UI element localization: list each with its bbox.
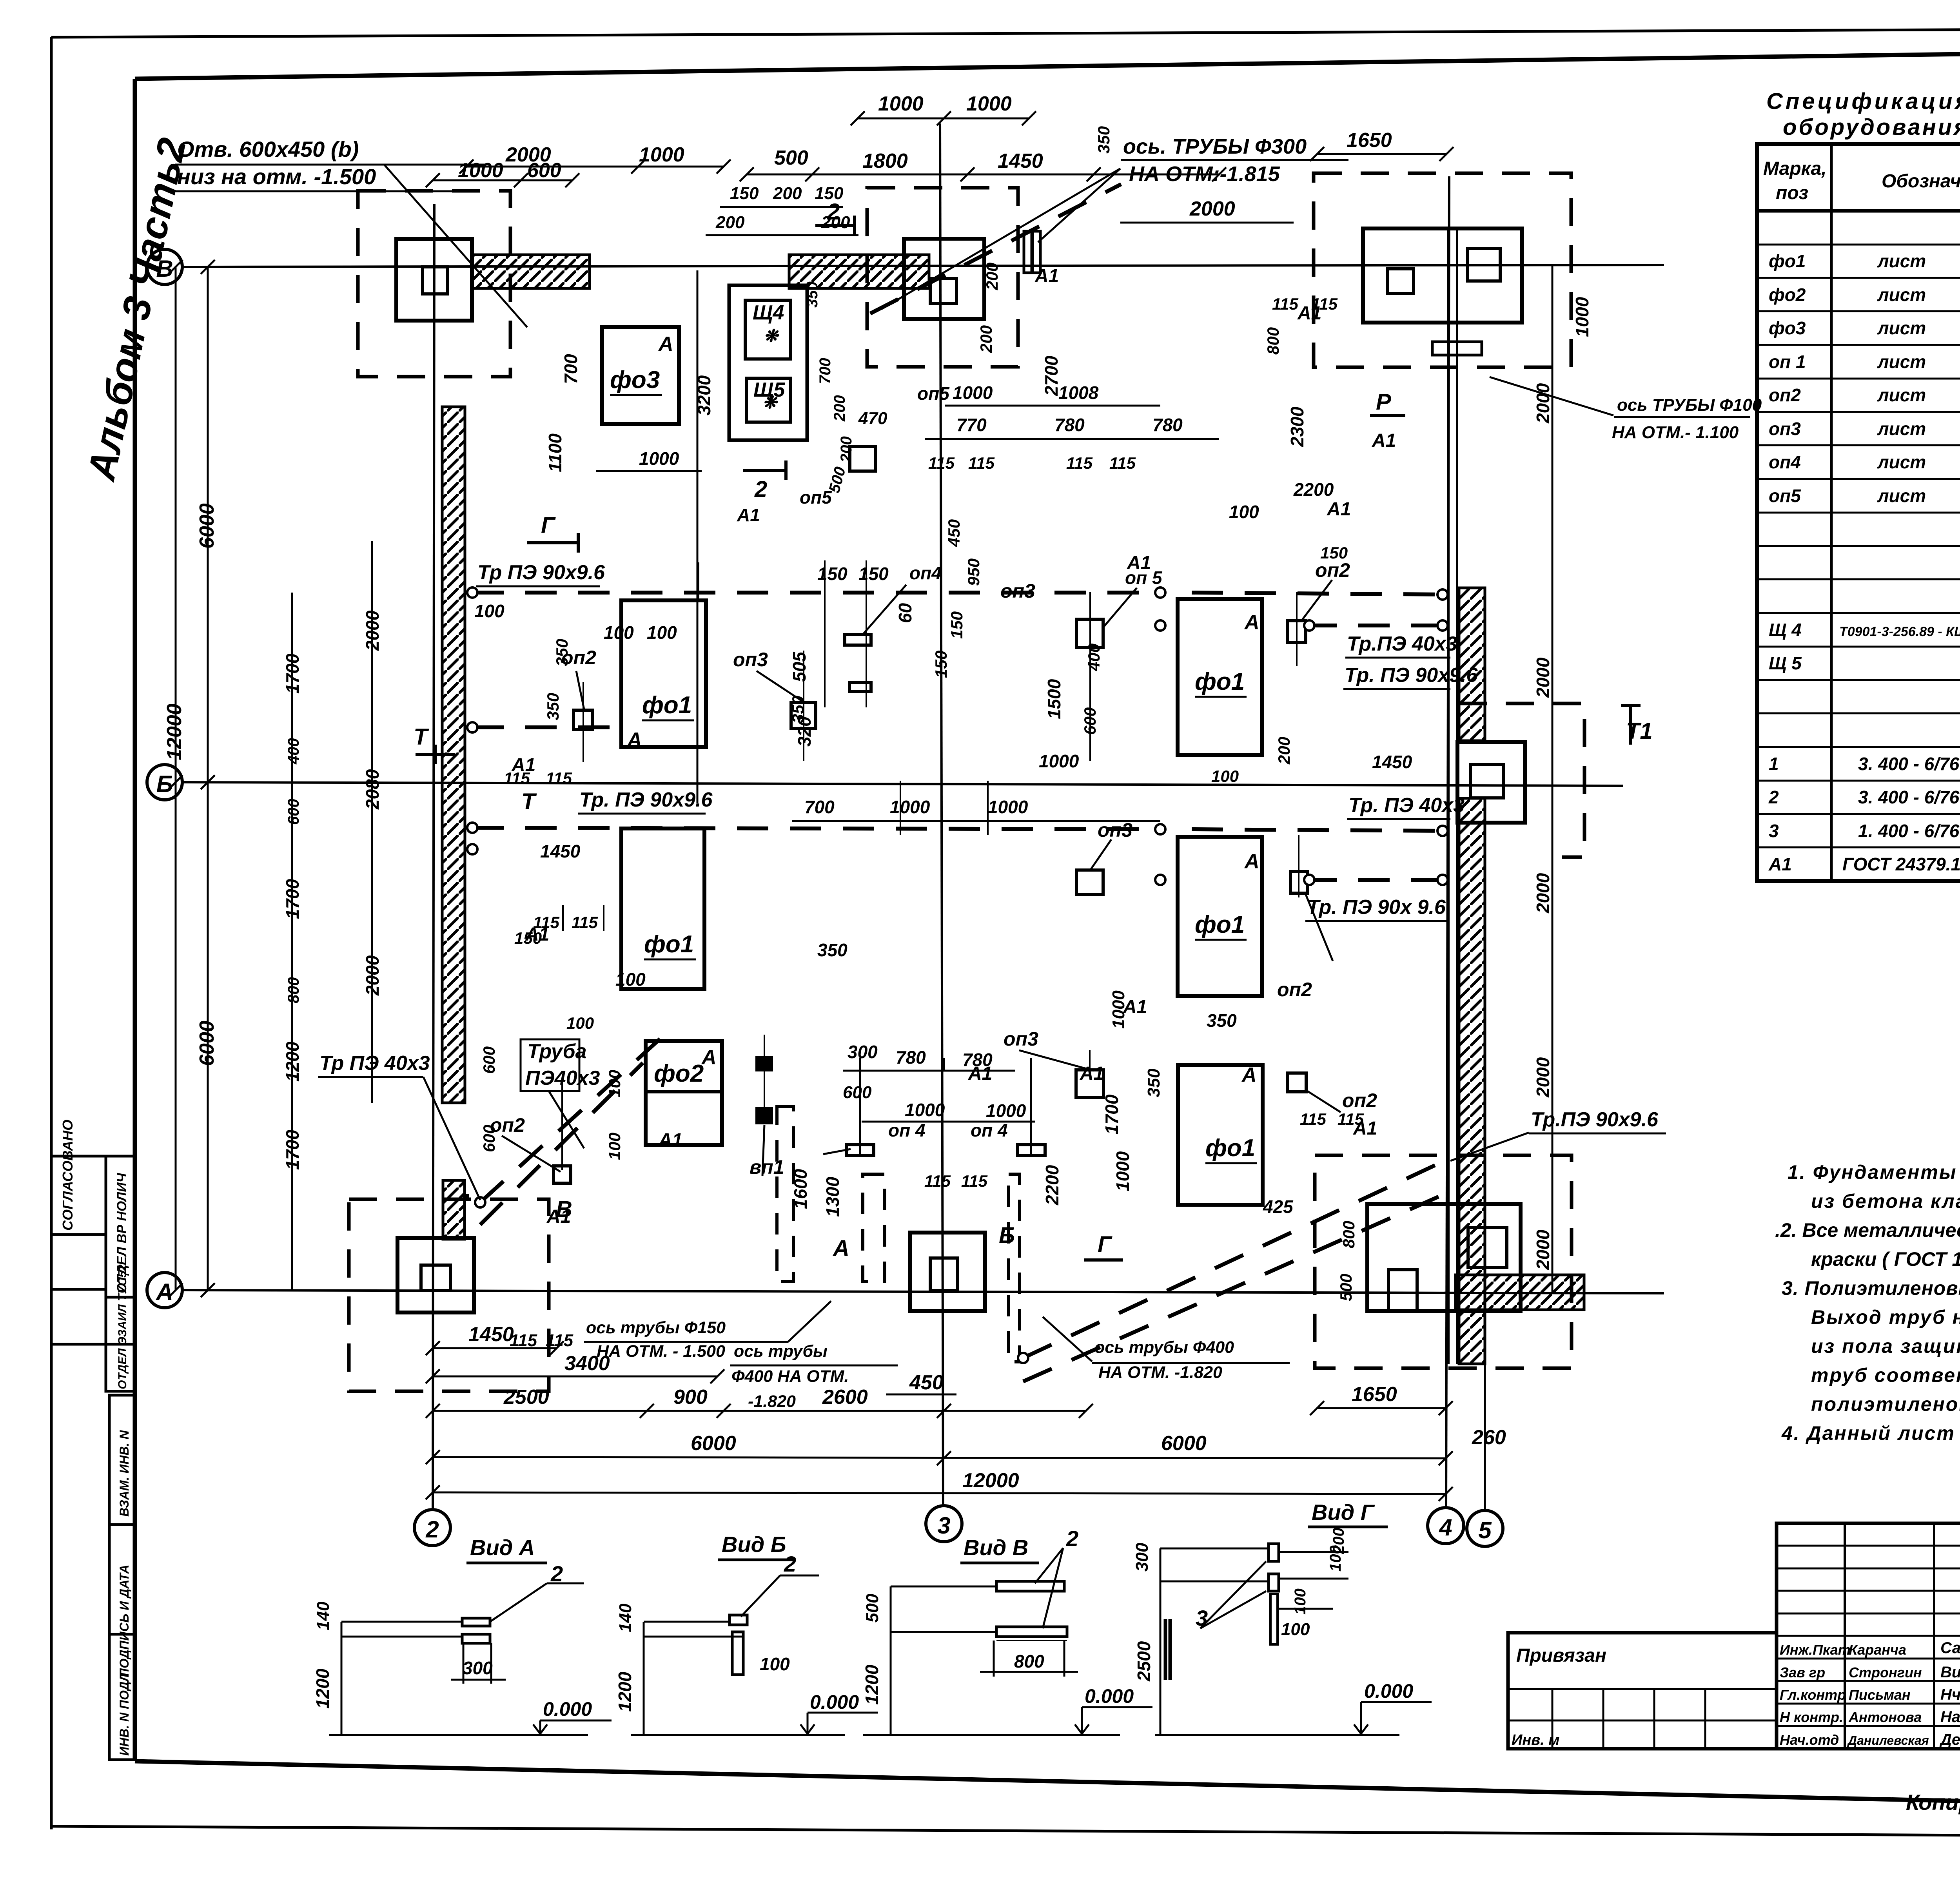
svg-text:200: 200 [1330, 1528, 1347, 1554]
svg-text:1. Фундаменты под оборудо: 1. Фундаменты под оборудование и приямки… [1788, 1161, 1960, 1183]
svg-text:Отв. 600х450 (b): Отв. 600х450 (b) [177, 137, 359, 161]
svg-text:Вид В: Вид В [964, 1535, 1028, 1560]
svg-text:12000: 12000 [962, 1469, 1019, 1492]
opora small squares [465, 446, 1307, 1198]
svg-text:2000: 2000 [1533, 1057, 1553, 1098]
svg-text:6000: 6000 [691, 1432, 736, 1455]
wall top along axis В (hatched) [472, 255, 590, 288]
svg-text:Тр. ПЭ 90х9.6: Тр. ПЭ 90х9.6 [579, 789, 713, 811]
svg-text:Письман: Письман [1849, 1687, 1911, 1703]
svg-text:оп 1: оп 1 [1769, 352, 1806, 372]
опора labels scattered [490, 559, 1377, 1178]
svg-text:115: 115 [546, 769, 572, 787]
foundation block at axis В right [1363, 228, 1522, 323]
pit dashed strips near axis А center [777, 1106, 793, 1282]
pipe axis note Ф100 [1612, 395, 1762, 442]
svg-text:150: 150 [858, 564, 889, 584]
svg-text:200: 200 [773, 184, 802, 203]
svg-text:400: 400 [285, 738, 302, 765]
bottom dim row 1450 [433, 1347, 557, 1349]
svg-text:фо1: фо1 [1195, 911, 1245, 938]
svg-text:1000: 1000 [890, 797, 930, 817]
dim 2000 right of axis3 top [1120, 222, 1294, 224]
vertical dim lines left margin [175, 267, 177, 1290]
svg-text:140: 140 [616, 1603, 635, 1632]
axis 2 vertical [433, 204, 434, 1509]
svg-text:100: 100 [760, 1654, 790, 1674]
svg-text:Спецификация к схеме распол: Спецификация к схеме расположения фундам… [1766, 89, 1960, 114]
ticks bottom rows [169, 111, 1454, 1501]
bottom dim row 3400 [433, 1376, 717, 1378]
svg-text:100: 100 [604, 622, 634, 643]
svg-text:950: 950 [964, 558, 983, 586]
svg-text:150: 150 [932, 651, 950, 678]
svg-text:Вир-: Вир- [1940, 1664, 1960, 1681]
svg-text:Сарси: Сарси [1940, 1639, 1960, 1657]
svg-text:115: 115 [928, 454, 955, 472]
svg-text:1700: 1700 [1102, 1094, 1122, 1135]
svg-text:1200: 1200 [862, 1664, 882, 1705]
svg-text:1000: 1000 [639, 448, 679, 469]
svg-text:350: 350 [544, 693, 562, 720]
spec table title [1766, 89, 1960, 140]
dim line row top 500-1800-1450 [747, 174, 1219, 176]
svg-text:1000: 1000 [966, 92, 1012, 115]
А1 reference labels [510, 266, 1396, 1350]
svg-text:100: 100 [1211, 767, 1239, 785]
svg-text:ГОСТ 24379.1 - 80: ГОСТ 24379.1 - 80 [1842, 854, 1960, 874]
svg-text:НА ОТМ.- 1.100: НА ОТМ.- 1.100 [1612, 423, 1739, 442]
svg-text:1800: 1800 [862, 150, 908, 172]
svg-text:оп5: оп5 [800, 487, 832, 508]
svg-text:Б: Б [156, 771, 173, 797]
pipe dashed diagonal bottom-left [480, 1033, 666, 1202]
dim row 770-780-780 upper [925, 438, 1219, 440]
svg-text:1650: 1650 [1347, 129, 1392, 152]
svg-text:Данилевская: Данилевская [1847, 1733, 1929, 1748]
svg-text:0.000: 0.000 [1364, 1680, 1413, 1702]
foundation фо3 [602, 327, 679, 424]
SEC:NOTES [1775, 1161, 1960, 1444]
svg-text:А: А [1241, 1064, 1257, 1086]
svg-text:2080: 2080 [362, 769, 383, 810]
svg-text:1000: 1000 [988, 797, 1028, 817]
foundation фо1 n4 [1178, 837, 1262, 996]
pipe dashed right stubs [1305, 624, 1446, 627]
equipment dashed outline T1 right of wall [1459, 703, 1584, 857]
svg-text:1100: 1100 [545, 433, 565, 472]
svg-text:труб соответствующего диаме: труб соответствующего диаметра. Специфик… [1811, 1364, 1960, 1386]
svg-text:700: 700 [804, 797, 835, 817]
panel stand Щ4-Щ5 [729, 285, 807, 440]
svg-text:Инв. м: Инв. м [1512, 1732, 1559, 1748]
svg-text:115: 115 [546, 1331, 573, 1350]
svg-text:Зав гр: Зав гр [1780, 1664, 1825, 1680]
svg-text:350: 350 [1094, 126, 1113, 154]
svg-text:600: 600 [843, 1083, 872, 1102]
scattered inner dims [474, 126, 1412, 1301]
svg-text:60: 60 [895, 603, 915, 623]
wall right (hatched lower) [1459, 798, 1485, 1364]
axis circle А [147, 1273, 182, 1308]
svg-text:Нат: Нат [1940, 1708, 1960, 1726]
svg-text:2000: 2000 [362, 955, 383, 996]
svg-text:1. 400 - 6/76: 1. 400 - 6/76 [1858, 821, 1960, 841]
dimension numbers rotated left columns [163, 503, 383, 1170]
svg-text:4. Данный лист смотреть: 4. Данный лист смотреть совместно с лист… [1781, 1422, 1960, 1444]
svg-text:Тр. ПЭ 90х 9.6: Тр. ПЭ 90х 9.6 [1307, 896, 1446, 919]
axis circle 2 [414, 1510, 450, 1546]
svg-text:1200: 1200 [312, 1668, 333, 1709]
svg-text:5: 5 [1478, 1517, 1492, 1543]
view Г [1132, 1500, 1413, 1702]
svg-text:2: 2 [827, 199, 840, 225]
svg-text:А1: А1 [968, 1063, 992, 1084]
svg-text:1600: 1600 [790, 1169, 811, 1209]
svg-text:ось трубы Ф400: ось трубы Ф400 [1094, 1338, 1234, 1357]
pipe labels ПЭ [319, 561, 1659, 1131]
svg-text:А1: А1 [1353, 1118, 1377, 1139]
svg-text:НА ОТМ. -1.820: НА ОТМ. -1.820 [1098, 1363, 1222, 1382]
svg-text:А1: А1 [1372, 430, 1396, 451]
vertical dim line right margin [1552, 265, 1553, 1293]
svg-text:оп2: оп2 [490, 1114, 525, 1136]
svg-text:115: 115 [1066, 454, 1093, 472]
svg-text:200: 200 [715, 213, 745, 232]
dimension numbers bottom [468, 1323, 1506, 1492]
svg-text:100: 100 [1292, 1588, 1309, 1615]
svg-text:фо1: фо1 [642, 692, 692, 719]
svg-text:❋: ❋ [764, 326, 780, 346]
svg-text:350: 350 [789, 696, 807, 723]
svg-text:300: 300 [1132, 1543, 1152, 1572]
svg-text:2000: 2000 [1533, 383, 1553, 424]
svg-text:600: 600 [527, 159, 561, 182]
outer sheet border [51, 27, 1960, 37]
svg-text:А1: А1 [658, 1130, 682, 1151]
svg-text:оп5: оп5 [917, 383, 950, 404]
svg-text:Вид Г: Вид Г [1312, 1500, 1375, 1525]
svg-text:Труба: Труба [527, 1040, 587, 1063]
svg-text:1000: 1000 [986, 1100, 1026, 1121]
svg-text:3. Полиэтиленовые трубы зал: 3. Полиэтиленовые трубы заложить в бетон… [1782, 1277, 1960, 1299]
svg-text:700: 700 [817, 358, 834, 384]
axis Б horizontal [182, 782, 1623, 786]
svg-text:115: 115 [572, 913, 598, 932]
corner foundation block А right [1367, 1204, 1521, 1311]
foundation фо1 n1 [621, 600, 706, 747]
svg-text:2500: 2500 [503, 1386, 549, 1409]
svg-text:.2. Все металлические ко: .2. Все металлические конструкции окраси… [1775, 1219, 1960, 1241]
svg-text:3. 400 - 6/76: 3. 400 - 6/76 [1858, 754, 1960, 774]
spec table body text [1768, 218, 1960, 874]
svg-text:3: 3 [1769, 821, 1779, 841]
svg-text:200: 200 [831, 395, 848, 422]
svg-text:оп3: оп3 [1004, 1028, 1038, 1050]
svg-text:3400: 3400 [564, 1352, 610, 1375]
svg-text:1450: 1450 [468, 1323, 514, 1346]
svg-text:Каранча: Каранча [1849, 1642, 1906, 1658]
svg-text:425: 425 [1263, 1196, 1294, 1217]
view Б [615, 1532, 859, 1713]
svg-text:ось ТРУБЫ Ф100: ось ТРУБЫ Ф100 [1617, 395, 1762, 415]
svg-text:115: 115 [510, 1331, 537, 1350]
svg-text:А1: А1 [737, 505, 760, 525]
svg-text:780: 780 [1152, 415, 1183, 435]
left stamp boxes [51, 1156, 135, 1760]
svg-text:770: 770 [956, 415, 987, 435]
corner foundation block А left [397, 1238, 474, 1312]
dim line top left 2000-1000 [466, 166, 724, 168]
svg-text:А: А [832, 1236, 849, 1261]
svg-text:100: 100 [566, 1014, 594, 1032]
svg-text:1000: 1000 [905, 1100, 945, 1120]
svg-text:350: 350 [804, 281, 821, 308]
svg-text:А1: А1 [1080, 1063, 1104, 1084]
wall left (hatched) [442, 407, 465, 1103]
svg-text:100: 100 [605, 1133, 624, 1160]
svg-text:ИНВ. N ПОДЛ: ИНВ. N ПОДЛ [117, 1672, 131, 1756]
svg-text:Тр. ПЭ 90х9.6: Тр. ПЭ 90х9.6 [1345, 664, 1478, 687]
svg-text:Обозначение: Обозначение [1882, 171, 1960, 192]
svg-text:Вид А: Вид А [470, 1535, 535, 1560]
svg-text:А: А [155, 1279, 173, 1305]
svg-text:1000: 1000 [639, 143, 684, 166]
foundation block at axis В left [396, 239, 472, 321]
svg-text:ВЗАМ. ИНВ. N: ВЗАМ. ИНВ. N [117, 1430, 131, 1517]
svg-text:700: 700 [561, 354, 581, 384]
svg-text:А1: А1 [1297, 303, 1321, 324]
svg-text:А: А [626, 729, 642, 751]
svg-text:лист: лист [1877, 318, 1926, 338]
svg-text:ОТДЕЛ ЭЗАИЛ ТУС52: ОТДЕЛ ЭЗАИЛ ТУС52 [116, 1264, 129, 1389]
svg-text:1200: 1200 [615, 1671, 635, 1712]
svg-text:краски ( ГОСТ 18292- 85) по: краски ( ГОСТ 18292- 85) по огрунтовке с… [1811, 1248, 1960, 1270]
foundation block at axis В middle [904, 239, 984, 319]
svg-text:1650: 1650 [1352, 1383, 1397, 1406]
svg-text:1450: 1450 [998, 150, 1043, 172]
svg-text:500: 500 [1337, 1274, 1355, 1301]
svg-text:300: 300 [463, 1658, 493, 1678]
equipment dashed outline bottom-left [349, 1199, 549, 1391]
svg-text:1450: 1450 [540, 841, 581, 861]
dim row 700-1000-1000 mid [792, 820, 1160, 822]
svg-text:СОГЛАСОВАНО: СОГЛАСОВАНО [60, 1120, 76, 1231]
equipment dashed outline top-left [358, 191, 510, 377]
svg-text:оп5: оп5 [1769, 486, 1801, 506]
corner foundation block А center [910, 1233, 985, 1311]
svg-text:Привязан: Привязан [1516, 1645, 1606, 1666]
axis В horizontal [182, 265, 1664, 267]
dim row 1000 1008 mid-left [945, 405, 1160, 407]
view В [862, 1526, 1134, 1707]
svg-text:Т: Т [414, 724, 429, 750]
svg-text:600: 600 [285, 799, 302, 825]
svg-text:ось трубы: ось трубы [734, 1342, 828, 1361]
svg-text:Т: Т [521, 789, 537, 814]
SEC:WALLS [442, 228, 1485, 1364]
svg-text:100: 100 [647, 622, 677, 643]
axis circle В [147, 249, 182, 285]
svg-text:Нч: Нч [1940, 1686, 1960, 1703]
svg-text:100: 100 [605, 1070, 624, 1097]
equipment dashed outline bottom-right [1315, 1155, 1572, 1368]
svg-text:Ф400 НА ОТМ.: Ф400 НА ОТМ. [731, 1367, 849, 1386]
axis А horizontal [182, 1290, 1664, 1293]
svg-text:ПОДПИСЬ И ДАТА: ПОДПИСЬ И ДАТА [117, 1564, 131, 1677]
svg-text:оп 4: оп 4 [971, 1120, 1008, 1140]
axis circle 4 [1428, 1508, 1464, 1544]
svg-text:А: А [701, 1046, 717, 1069]
svg-text:фо2: фо2 [654, 1060, 704, 1087]
svg-text:1300: 1300 [822, 1177, 843, 1217]
svg-text:лист: лист [1877, 452, 1926, 472]
thin construction verticals [562, 560, 1299, 1170]
svg-text:Стронгин: Стронгин [1849, 1664, 1922, 1680]
svg-text:вп1: вп1 [750, 1156, 784, 1178]
dimension numbers rotated right column [545, 281, 1592, 1270]
svg-text:лист: лист [1877, 352, 1926, 372]
equipment dashed outline top-right [1314, 173, 1571, 367]
svg-text:470: 470 [858, 409, 887, 428]
svg-text:1000: 1000 [878, 92, 924, 115]
svg-text:оп2: оп2 [1277, 979, 1312, 1001]
pipe dashed run at Б left [472, 725, 612, 729]
svg-text:Тр.ПЭ 40х3: Тр.ПЭ 40х3 [1347, 633, 1457, 655]
svg-text:900: 900 [673, 1386, 708, 1409]
svg-text:150: 150 [730, 184, 759, 203]
spec table grid [1757, 144, 1960, 881]
foundation фо1 n2 [621, 828, 704, 989]
svg-text:2: 2 [754, 477, 767, 502]
svg-text:фо2: фо2 [1769, 285, 1806, 305]
pipe axis note Ф300 [1123, 135, 1307, 186]
svg-text:Марка,: Марка, [1763, 158, 1827, 179]
svg-text:А1: А1 [1327, 499, 1351, 520]
svg-text:лист: лист [1877, 486, 1926, 506]
svg-text:А: А [1244, 611, 1259, 634]
privyazan box [1508, 1633, 1777, 1749]
view A [312, 1535, 592, 1720]
svg-text:115: 115 [968, 454, 995, 472]
svg-text:115: 115 [1109, 454, 1136, 472]
axis 5 vertical [1484, 1356, 1486, 1510]
svg-text:500: 500 [774, 147, 808, 169]
bottom dim row 1650-260 [1317, 1407, 1446, 1409]
svg-text:150: 150 [817, 564, 848, 584]
svg-text:Щ 4: Щ 4 [1769, 620, 1802, 640]
axis 4 vertical [1446, 176, 1449, 1507]
dim line 1650 top right [1317, 153, 1446, 155]
svg-text:1000: 1000 [1572, 297, 1592, 337]
svg-text:800: 800 [1339, 1221, 1358, 1248]
svg-text:1200: 1200 [282, 1041, 303, 1082]
equipment dashed outline top-middle [867, 188, 1018, 367]
wall left lower segment [443, 1180, 465, 1239]
svg-text:100: 100 [1281, 1620, 1310, 1639]
dimension numbers top [458, 92, 1392, 232]
pipe dashed run lower [472, 828, 1160, 829]
svg-text:А1: А1 [1127, 553, 1151, 573]
svg-text:Копировал: Копировал [1906, 1790, 1960, 1815]
svg-text:Тр.ПЭ 90х9.6: Тр.ПЭ 90х9.6 [1531, 1108, 1659, 1131]
pipe ПЭ 90х9.6 dashed run upper [472, 591, 1160, 595]
svg-text:3: 3 [937, 1512, 950, 1539]
svg-text:2: 2 [1768, 787, 1779, 807]
foundation фо2 [646, 1041, 722, 1145]
svg-text:Г: Г [541, 513, 556, 538]
svg-text:оп4: оп4 [1769, 452, 1801, 472]
svg-text:оп 4: оп 4 [888, 1120, 926, 1140]
svg-text:А1: А1 [525, 924, 549, 945]
bottom dim row 2500-900-2600 [433, 1410, 1086, 1412]
svg-text:260: 260 [1472, 1426, 1506, 1449]
svg-text:лист: лист [1877, 251, 1926, 271]
svg-text:Вид Б: Вид Б [722, 1532, 786, 1557]
svg-text:В: В [556, 1196, 572, 1222]
svg-text:350: 350 [1144, 1068, 1163, 1097]
pipe dashed diagonal bottom-right [1023, 1158, 1450, 1358]
svg-text:100: 100 [1229, 502, 1259, 522]
svg-text:200: 200 [1275, 737, 1293, 765]
svg-text:Б: Б [999, 1223, 1015, 1248]
svg-text:780: 780 [1054, 415, 1085, 435]
svg-text:Н контр.: Н контр. [1780, 1709, 1843, 1725]
leader lines to opora [502, 580, 1341, 1176]
svg-text:115: 115 [1300, 1110, 1327, 1128]
svg-text:200: 200 [838, 436, 855, 463]
svg-text:400: 400 [1085, 644, 1103, 671]
pipe stub at axis В middle [1024, 231, 1032, 273]
left stamp rotated texts [60, 1120, 131, 1756]
dim micro rows near axis2 top [720, 206, 843, 208]
svg-text:200: 200 [977, 325, 995, 353]
svg-text:В: В [156, 256, 173, 282]
svg-text:1700: 1700 [282, 879, 303, 919]
SEC:FOUND [349, 173, 1584, 1391]
svg-text:115: 115 [961, 1172, 988, 1190]
svg-text:оп3: оп3 [1098, 819, 1132, 841]
svg-text:оп2: оп2 [561, 647, 596, 669]
svg-text:1000: 1000 [953, 383, 993, 403]
axis circle 3 [926, 1506, 962, 1542]
svg-text:350: 350 [1207, 1010, 1237, 1031]
svg-text:2500: 2500 [1134, 1641, 1154, 1682]
svg-text:Тр ПЭ 40х3: Тр ПЭ 40х3 [319, 1052, 430, 1075]
svg-text:2200: 2200 [1293, 479, 1334, 500]
svg-text:ось трубы Ф150: ось трубы Ф150 [586, 1318, 726, 1337]
svg-text:фо1: фо1 [1195, 668, 1245, 695]
foundation фо1 n3 [1178, 599, 1262, 755]
svg-text:А: А [1244, 850, 1259, 873]
bottom dim row 450 [886, 1394, 956, 1396]
svg-text:А1: А1 [1123, 997, 1147, 1017]
svg-text:2000: 2000 [1533, 1229, 1553, 1270]
svg-text:450: 450 [909, 1371, 944, 1394]
svg-text:2000: 2000 [362, 610, 383, 651]
svg-text:2600: 2600 [822, 1386, 868, 1409]
svg-text:поз: поз [1776, 183, 1808, 203]
SEC:PIPES [472, 184, 1450, 1381]
svg-text:2000: 2000 [1533, 873, 1553, 914]
svg-text:2300: 2300 [1287, 406, 1307, 447]
dim line row top axis3 [858, 118, 1029, 120]
svg-text:А1: А1 [1034, 266, 1059, 286]
svg-text:1700: 1700 [282, 1129, 303, 1170]
svg-text:оп2: оп2 [1315, 559, 1350, 581]
axis circle 5 [1467, 1510, 1503, 1546]
svg-text:фо3: фо3 [610, 366, 660, 393]
